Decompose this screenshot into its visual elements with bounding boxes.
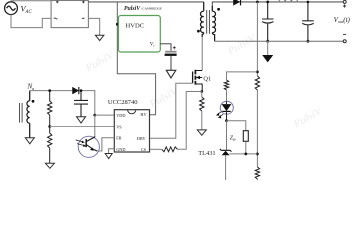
diode Da: [73, 87, 79, 94]
capacitor Co1: [262, 2, 274, 41]
resistor RCS horizontal: [162, 147, 178, 152]
svg-text:PulsiV: PulsiV: [292, 104, 326, 131]
wire bottom rail: [215, 40, 345, 42]
wire opto collector feed: [94, 115, 96, 137]
resistor RS1: [48, 91, 52, 127]
capacitor CVDD: [165, 51, 177, 56]
node HVDC input: [116, 23, 119, 26]
wire Vc pin: [160, 44, 171, 51]
wire drain lead: [201, 37, 203, 70]
wire GND stub: [109, 149, 115, 154]
svg-text:Na: Na: [27, 83, 35, 91]
svg-text:VS: VS: [116, 124, 122, 129]
wire Zfb bottom: [245, 141, 247, 154]
svg-text:TL431: TL431: [198, 150, 215, 157]
ground G7: [197, 130, 206, 135]
logo PulsiV: [124, 6, 162, 12]
wire HV feed: [117, 2, 155, 115]
svg-text:HV: HV: [140, 112, 147, 117]
wire TL431 anode: [225, 155, 227, 180]
node Zfb ref: [244, 153, 247, 156]
ground G4: [45, 163, 54, 168]
wire FB: [97, 138, 114, 151]
wire TL431 cathode: [226, 121, 228, 151]
node Co1 bottom: [266, 40, 269, 43]
node source: [200, 90, 203, 93]
bridge terminal ~: [54, 18, 58, 19]
node secondary dot: [217, 8, 220, 11]
wire aux rail: [30, 90, 73, 92]
svg-text:PulsiV: PulsiV: [226, 31, 260, 58]
wire CVDD to ground: [170, 56, 172, 70]
node aux dot: [32, 100, 35, 103]
ground G1: [95, 35, 104, 40]
opto light arrows: [76, 140, 85, 146]
node LED bottom: [225, 119, 228, 122]
optocoupler U2 phototransistor: [78, 136, 99, 157]
svg-text:VAC: VAC: [21, 4, 33, 14]
resistor Rled: [224, 80, 228, 90]
aux winding: [27, 91, 30, 138]
node Co2 top: [307, 1, 310, 4]
svg-text:Vc: Vc: [150, 41, 155, 47]
transistor TL431 shunt: [222, 151, 230, 156]
svg-text:Vout(t): Vout(t): [334, 16, 351, 24]
transformer T1 primary winding: [200, 2, 203, 37]
label minus: [343, 33, 346, 35]
capacitor Caux: [74, 91, 88, 117]
wire DRV to gate: [150, 83, 193, 138]
svg-text:Q1: Q1: [203, 75, 211, 82]
wire Zfb top: [227, 121, 246, 131]
transformer T1 core: [207, 10, 210, 34]
bridge terminal minus: [82, 17, 85, 19]
wire CS link: [178, 92, 202, 150]
svg-text:Zfb: Zfb: [230, 135, 236, 141]
svg-text:HVDC: HVDC: [126, 22, 145, 29]
wire mid ground lead: [267, 41, 269, 55]
HVDC module box: [118, 16, 160, 53]
ground G3: [25, 138, 34, 144]
node VDD: [93, 114, 96, 117]
impedance Zfb: [243, 131, 248, 142]
resistor RFB2: [255, 167, 259, 179]
ground G5: [77, 117, 86, 123]
diode Dout: [233, 0, 240, 6]
wire divider column: [256, 2, 258, 180]
node Caux tap: [80, 89, 83, 92]
wire CS pin: [150, 148, 162, 150]
resistor RFB1: [255, 76, 259, 90]
wire AC top: [11, 1, 51, 2]
node VS tap: [48, 125, 51, 128]
resistor Rs source: [200, 97, 204, 111]
node Co2 bottom: [307, 40, 310, 43]
svg-text:VDD: VDD: [116, 113, 125, 118]
optocoupler U2 LED: [220, 101, 233, 114]
node RS1 tap: [48, 89, 51, 92]
svg-text:PulsiV: PulsiV: [84, 48, 118, 75]
svg-text:DRV: DRV: [137, 136, 147, 141]
wire TL431 ref: [230, 153, 258, 155]
bridge terminal + right: [82, 1, 85, 4]
ground G6: [105, 154, 112, 159]
wire bridge minus out: [88, 18, 99, 35]
ground G8: [263, 56, 272, 62]
bridge rectifier BR1: [51, 1, 88, 28]
wire diode out: [79, 91, 95, 116]
wire secondary top lead: [212, 2, 344, 6]
svg-text:PulsiV: PulsiV: [148, 84, 182, 111]
svg-text:| CAMBRIDGE: | CAMBRIDGE: [141, 6, 162, 10]
wire LED branch top: [227, 72, 258, 80]
wire VS: [50, 126, 115, 128]
op-amp U1 UCC28740: [114, 110, 149, 152]
resistor RS2: [48, 127, 52, 164]
label plus: [343, 4, 346, 7]
node divider rail: [256, 1, 259, 4]
wire top rail: [88, 1, 203, 3]
bridge terminal + left: [56, 1, 59, 4]
svg-text:CS: CS: [141, 147, 147, 152]
terminal out plus: [343, 0, 346, 3]
wire AC bottom loop: [11, 15, 51, 28]
node divider top: [256, 71, 259, 74]
transformer T1 secondary winding: [212, 6, 215, 41]
inductor Lout: [279, 0, 298, 2]
node Co1 top: [266, 1, 269, 4]
label CVDD plus: [173, 46, 176, 49]
ground G2: [166, 70, 176, 78]
capacitor Co2: [302, 2, 314, 41]
svg-text:PulsiV: PulsiV: [124, 6, 141, 12]
LED light arrows: [217, 112, 223, 117]
svg-text:FB: FB: [116, 136, 121, 141]
aux core: [20, 103, 23, 123]
node primary dot: [197, 30, 200, 33]
AC source VAC: [5, 2, 18, 15]
svg-text:GND: GND: [116, 147, 125, 152]
node ref: [256, 153, 259, 156]
wire VDD pin: [95, 114, 115, 116]
svg-text:UCC28740: UCC28740: [108, 99, 138, 106]
terminal out minus: [343, 40, 346, 43]
transistor Q1: [193, 70, 203, 92]
